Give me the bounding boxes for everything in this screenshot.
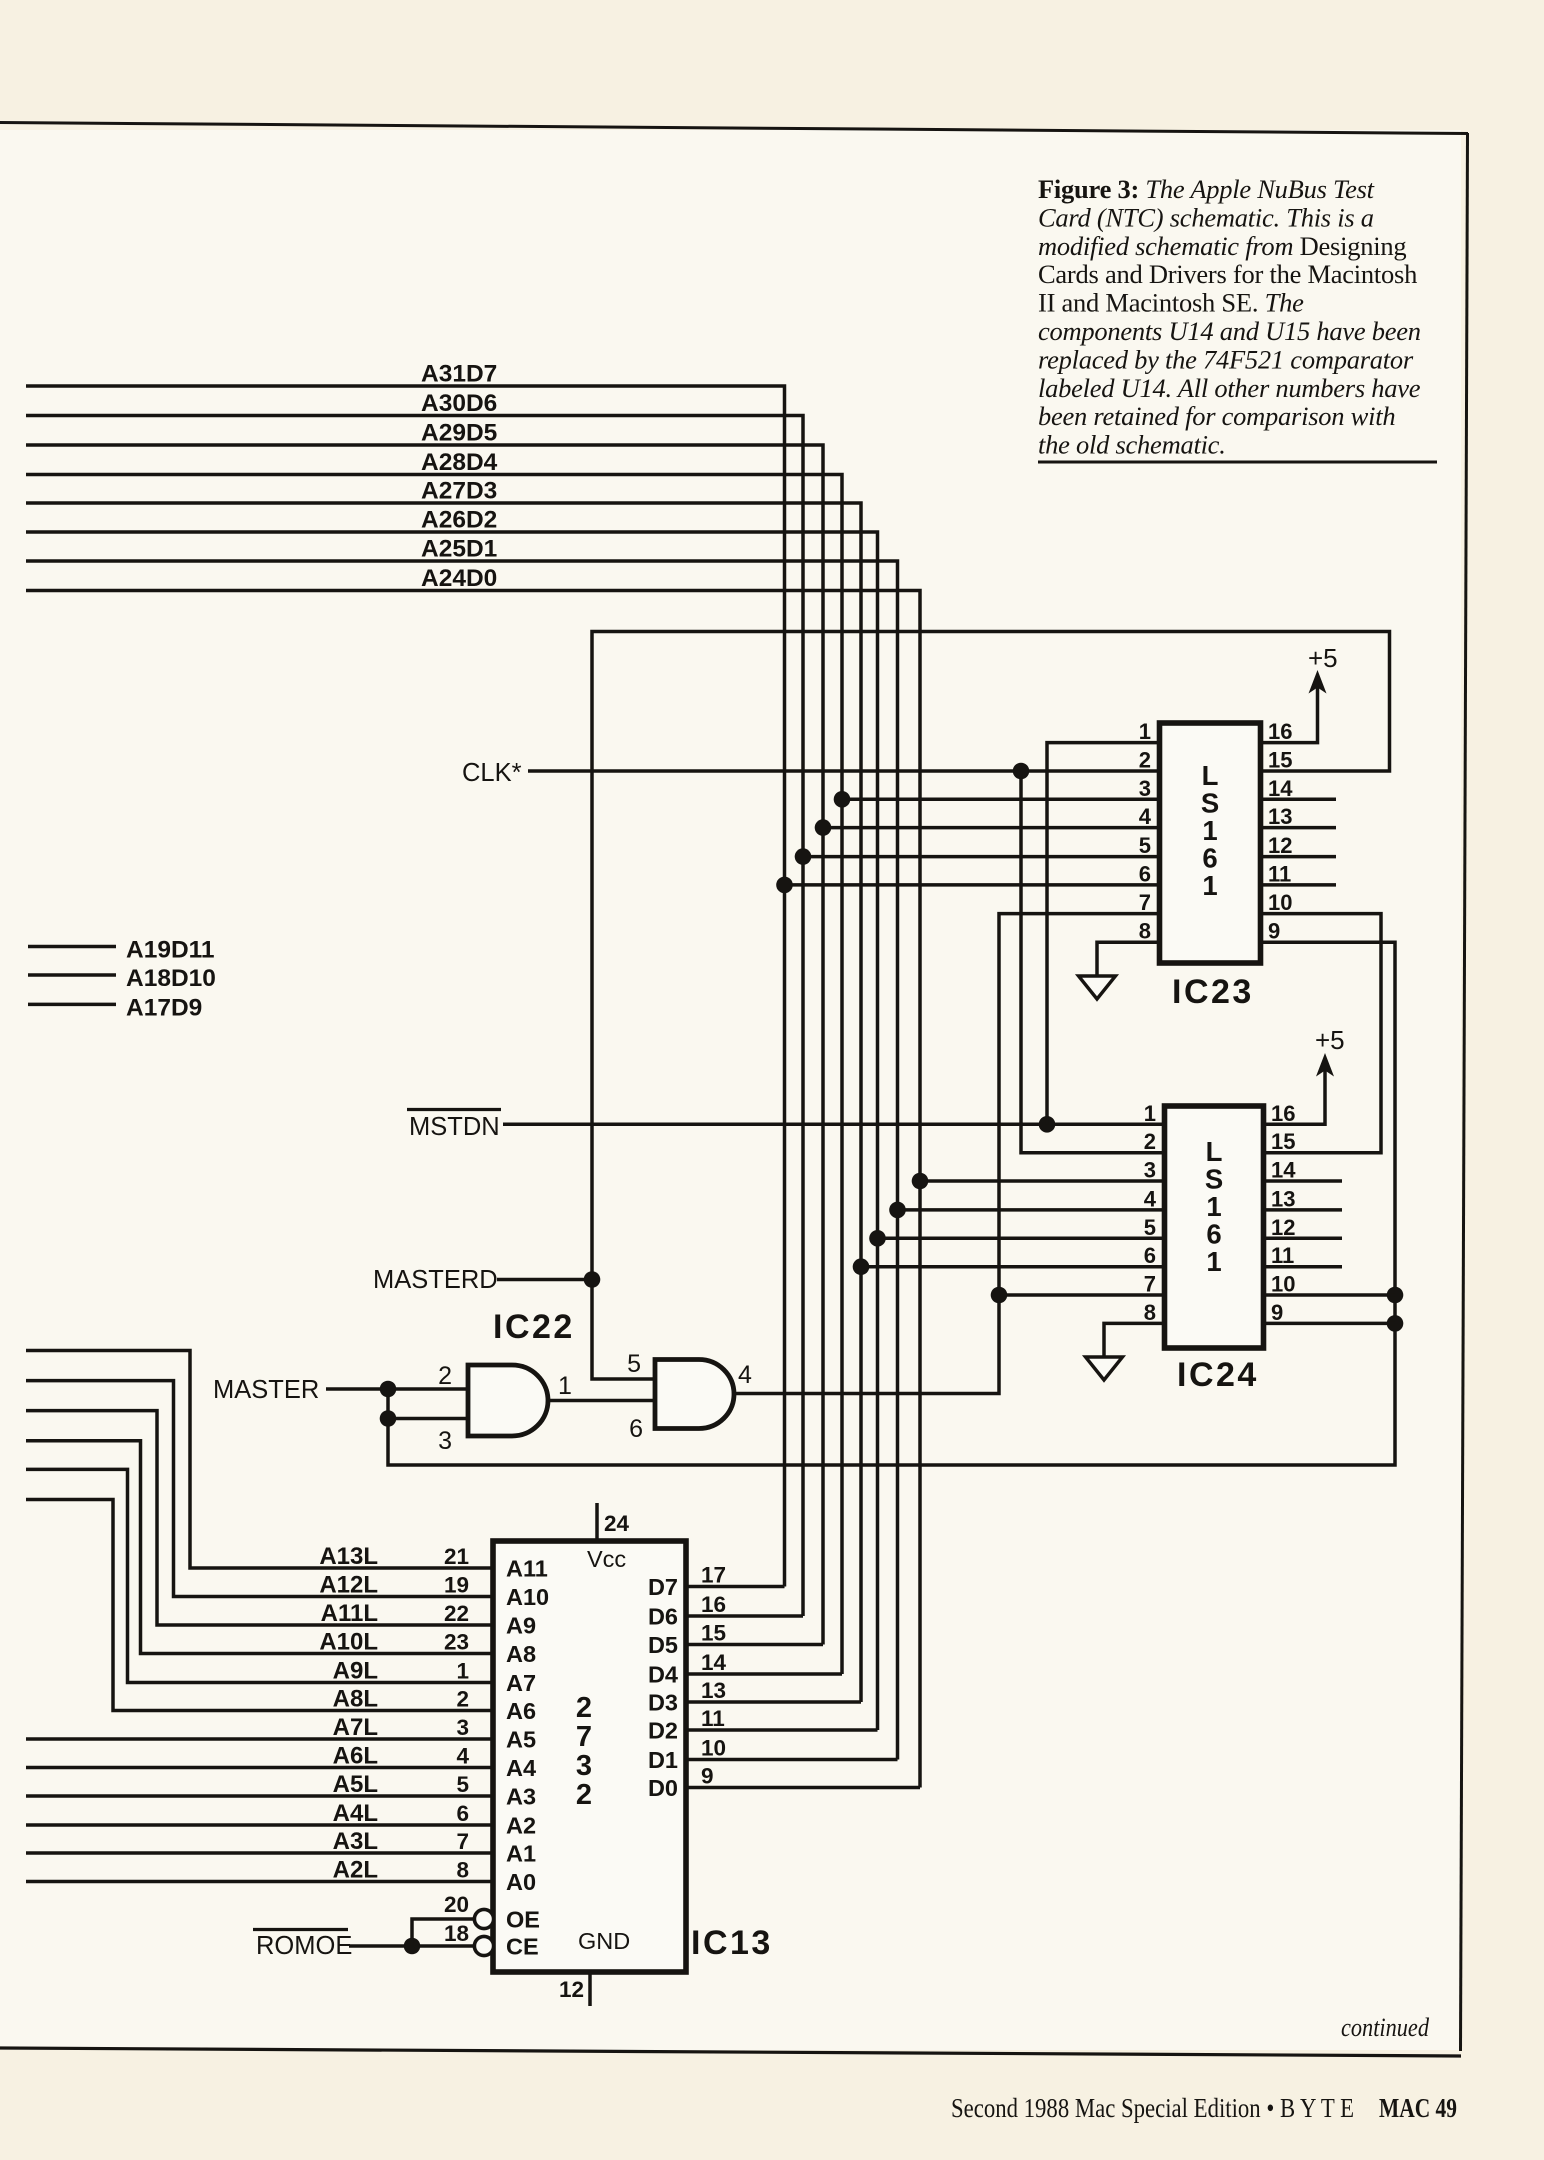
wire ROMOE branch to OE bubble — [412, 1919, 474, 1946]
svg-text:+5: +5 — [1308, 643, 1338, 673]
caption rule — [1038, 461, 1437, 464]
svg-text:6: 6 — [456, 1801, 469, 1826]
svg-text:A9: A9 — [506, 1613, 536, 1639]
svg-text:Figure 3: The Apple NuBus Test: Figure 3: The Apple NuBus Test — [1038, 174, 1375, 204]
svg-text:A3L: A3L — [333, 1828, 378, 1855]
wire bus line A24D0 (horizontal from page edge, bend down to IC13 D0) — [26, 591, 920, 1788]
wire bus line A28D4 (horizontal from page edge, bend down to IC13 D4) — [26, 475, 842, 1675]
wire IC24 output stub — [1264, 1179, 1343, 1183]
svg-text:21: 21 — [444, 1544, 469, 1569]
wire IC24 pin8 to ground — [1104, 1323, 1165, 1357]
svg-text:6: 6 — [1144, 1243, 1156, 1268]
wire IC23 pin10 to IC24 pin15 — [1260, 914, 1381, 1153]
svg-text:2: 2 — [576, 1779, 592, 1811]
figure frame top border — [0, 123, 1468, 134]
wire gate2 output to IC23 pin7 — [733, 914, 1160, 1394]
wire bus line A30D6 (horizontal from page edge, bend down to IC13 D6) — [26, 416, 803, 1617]
svg-text:23: 23 — [444, 1630, 469, 1655]
svg-text:GND: GND — [578, 1928, 630, 1954]
wire IC13 D5 output — [686, 1643, 823, 1647]
ground symbol (IC23) — [1079, 976, 1116, 999]
junction IC24 pin5 tap — [869, 1230, 886, 1247]
wire IC24 pin9 stub — [1264, 1322, 1396, 1326]
svg-text:A3: A3 — [506, 1784, 536, 1810]
svg-text:components U14 and U15 have be: components U14 and U15 have been — [1038, 316, 1421, 346]
svg-text:IC23: IC23 — [1172, 973, 1254, 1011]
svg-text:D7: D7 — [648, 1574, 678, 1600]
wire A5L from page edge — [26, 1794, 493, 1798]
wire IC24 pin6 to bus vertical — [861, 1265, 1165, 1269]
wire A13L feed from page edge — [26, 1351, 493, 1569]
wire A2L from page edge — [26, 1880, 493, 1884]
svg-text:8: 8 — [1139, 919, 1151, 944]
svg-text:5: 5 — [627, 1350, 641, 1378]
svg-text:A19D11: A19D11 — [126, 937, 215, 964]
svg-text:11: 11 — [1271, 1243, 1294, 1268]
svg-text:11: 11 — [701, 1706, 725, 1731]
svg-text:24: 24 — [604, 1511, 630, 1536]
svg-text:12: 12 — [559, 1977, 584, 2002]
wire A12L feed from page edge — [26, 1381, 493, 1597]
svg-text:A31D7: A31D7 — [421, 361, 497, 388]
svg-text:A12L: A12L — [319, 1572, 378, 1599]
wire IC24 pin7 stub — [999, 1293, 1165, 1297]
svg-text:D2: D2 — [648, 1718, 678, 1744]
svg-text:labeled U14. All other numbers: labeled U14. All other numbers have — [1038, 373, 1421, 403]
svg-text:1: 1 — [1139, 719, 1151, 744]
wire IC23 output stub — [1260, 855, 1336, 859]
svg-text:D3: D3 — [648, 1690, 678, 1716]
wire IC23 output stub — [1260, 798, 1336, 802]
svg-text:continued: continued — [1341, 2013, 1430, 2042]
svg-text:MSTDN: MSTDN — [409, 1113, 500, 1141]
svg-text:replaced by the 74F521 compara: replaced by the 74F521 comparator — [1038, 344, 1414, 374]
wire IC13 D2 output — [686, 1728, 878, 1732]
wire gate1 output to gate2 pin6 — [546, 1399, 656, 1403]
svg-text:1: 1 — [1206, 1246, 1221, 1277]
svg-text:2: 2 — [576, 1692, 592, 1724]
wire IC13 D7 output — [686, 1585, 785, 1589]
svg-text:5: 5 — [456, 1772, 469, 1797]
svg-text:16: 16 — [1268, 719, 1292, 744]
svg-text:20: 20 — [444, 1892, 469, 1917]
wire A9L feed from page edge — [26, 1469, 493, 1682]
wire IC23 pin8 to ground — [1097, 942, 1160, 976]
svg-text:4: 4 — [1139, 804, 1152, 829]
svg-text:MASTER: MASTER — [213, 1376, 319, 1404]
junction IC24 pin9 — [1387, 1315, 1404, 1332]
svg-text:CE: CE — [506, 1934, 539, 1960]
svg-text:6: 6 — [1202, 843, 1217, 874]
svg-text:14: 14 — [701, 1650, 727, 1675]
junction IC24 pin7 — [991, 1287, 1008, 1304]
svg-text:Second 1988 Mac Special Editio: Second 1988 Mac Special Edition • B Y T … — [951, 2093, 1354, 2123]
wire A6L from page edge — [26, 1766, 493, 1770]
svg-text:modified schematic from Design: modified schematic from Designing — [1038, 231, 1406, 261]
svg-text:15: 15 — [1268, 748, 1292, 773]
svg-text:A7L: A7L — [333, 1714, 378, 1741]
wire ROMOE to CE bubble — [349, 1944, 474, 1948]
wire IC24 pin10 stub — [1264, 1293, 1396, 1297]
wire IC24 pin3 to bus vertical — [920, 1179, 1165, 1183]
svg-text:A8L: A8L — [333, 1686, 378, 1713]
junction IC23 pin3 tap — [834, 791, 851, 808]
svg-text:A6L: A6L — [333, 1743, 378, 1770]
svg-text:9: 9 — [1271, 1300, 1283, 1325]
svg-text:A2: A2 — [506, 1813, 536, 1839]
svg-text:1: 1 — [1202, 815, 1217, 846]
svg-text:13: 13 — [1268, 804, 1292, 829]
svg-text:19: 19 — [444, 1573, 469, 1598]
svg-text:A29D5: A29D5 — [421, 420, 497, 447]
svg-text:7: 7 — [456, 1829, 469, 1854]
svg-text:6: 6 — [629, 1415, 643, 1443]
junction IC23 pin4 tap — [815, 819, 832, 836]
wire IC13 D1 output — [686, 1758, 898, 1762]
svg-text:A11: A11 — [506, 1556, 548, 1582]
svg-text:11: 11 — [1268, 861, 1291, 886]
svg-text:A25D1: A25D1 — [421, 536, 497, 563]
svg-text:IC13: IC13 — [691, 1924, 773, 1962]
IC U IC24 74LS161 body — [1165, 1106, 1264, 1348]
svg-text:16: 16 — [1271, 1101, 1295, 1126]
svg-text:A8: A8 — [506, 1641, 536, 1667]
wire IC24 pin5 to bus vertical — [878, 1237, 1165, 1241]
svg-text:9: 9 — [701, 1764, 714, 1789]
junction IC24 pin4 tap — [889, 1202, 906, 1219]
svg-text:A10L: A10L — [319, 1629, 378, 1656]
svg-text:3: 3 — [1144, 1158, 1156, 1183]
svg-text:A30D6: A30D6 — [421, 390, 497, 417]
svg-text:3: 3 — [576, 1750, 592, 1782]
wire A10L feed from page edge — [26, 1441, 493, 1654]
wire bus line A27D3 (horizontal from page edge, bend down to IC13 D3) — [26, 503, 861, 1702]
pin IC13-12 GND lead — [588, 1972, 592, 2006]
junction CLK* branch — [1013, 763, 1030, 780]
svg-text:18: 18 — [444, 1921, 469, 1946]
svg-text:15: 15 — [1271, 1129, 1295, 1154]
wire MASTER to gate1 pin2 — [326, 1387, 467, 1391]
junction MASTER pin2 — [380, 1381, 397, 1398]
wire IC24 pin16 to +5 — [1264, 1069, 1326, 1124]
svg-text:9: 9 — [1268, 919, 1280, 944]
svg-text:A7: A7 — [506, 1670, 536, 1696]
wire riser to IC23 pin1 — [1047, 743, 1160, 1125]
svg-text:1: 1 — [1206, 1191, 1221, 1222]
wire A7L from page edge — [26, 1737, 493, 1741]
svg-text:A11L: A11L — [321, 1600, 378, 1627]
svg-text:13: 13 — [701, 1678, 726, 1703]
wire IC24 output stub — [1264, 1208, 1343, 1212]
svg-text:D6: D6 — [648, 1604, 678, 1630]
svg-text:7: 7 — [1144, 1272, 1156, 1297]
svg-text:8: 8 — [456, 1858, 469, 1883]
svg-text:6: 6 — [1206, 1219, 1221, 1250]
pin IC13 OE inversion bubble — [474, 1909, 493, 1928]
svg-text:D1: D1 — [648, 1747, 678, 1773]
IC U IC13 2732 EPROM body — [493, 1541, 686, 1972]
svg-text:L: L — [1206, 1136, 1223, 1167]
wire IC23 pin3 to bus vertical — [842, 798, 1160, 802]
ground symbol (IC24) — [1086, 1357, 1123, 1380]
svg-text:4: 4 — [738, 1361, 752, 1389]
svg-text:IC24: IC24 — [1177, 1356, 1259, 1394]
svg-text:A13L: A13L — [319, 1543, 378, 1570]
svg-text:A10: A10 — [506, 1584, 549, 1610]
wire IC23 pin5 to bus vertical — [803, 855, 1160, 859]
svg-text:2: 2 — [1139, 748, 1151, 773]
svg-text:A6: A6 — [506, 1698, 536, 1724]
svg-text:2: 2 — [1144, 1129, 1156, 1154]
svg-text:10: 10 — [701, 1736, 726, 1761]
svg-text:4: 4 — [1144, 1186, 1157, 1211]
svg-text:22: 22 — [444, 1601, 469, 1626]
svg-text:3: 3 — [1139, 776, 1151, 801]
wire A3L from page edge — [26, 1851, 493, 1855]
junction ROMOE — [404, 1938, 421, 1955]
svg-text:5: 5 — [1144, 1215, 1156, 1240]
svg-text:1: 1 — [558, 1372, 572, 1400]
svg-text:MASTERD: MASTERD — [373, 1266, 498, 1294]
wire stub A17D9 — [28, 1003, 116, 1007]
svg-text:A1: A1 — [506, 1841, 536, 1867]
svg-text:7: 7 — [576, 1721, 592, 1753]
wire IC24 output stub — [1264, 1237, 1343, 1241]
wire MASTERD vertical / top run to IC23 pin15 / down to gate2 pin5 — [592, 632, 1390, 1380]
figure frame bottom border — [0, 2048, 1461, 2056]
svg-text:A2L: A2L — [333, 1857, 378, 1884]
wire IC13 D4 output — [686, 1672, 842, 1676]
svg-text:3: 3 — [438, 1427, 452, 1455]
pin IC13-24 Vcc lead — [595, 1503, 599, 1541]
svg-text:12: 12 — [1271, 1215, 1295, 1240]
pin IC13 CE inversion bubble — [474, 1936, 493, 1955]
svg-text:Card (NTC) schematic. This is: Card (NTC) schematic. This is a — [1038, 202, 1374, 232]
svg-text:A27D3: A27D3 — [421, 478, 497, 505]
wire IC23 output stub — [1260, 826, 1336, 830]
svg-text:A28D4: A28D4 — [421, 449, 498, 476]
wire A8L feed from page edge — [26, 1500, 493, 1711]
svg-text:D5: D5 — [648, 1632, 678, 1658]
svg-text:been retained for comparison w: been retained for comparison with — [1038, 401, 1395, 431]
svg-text:L: L — [1202, 760, 1219, 791]
svg-text:16: 16 — [701, 1592, 726, 1617]
net MSTDN : overline — [407, 1108, 501, 1111]
svg-text:14: 14 — [1268, 776, 1293, 801]
svg-text:15: 15 — [701, 1621, 726, 1646]
svg-text:A26D2: A26D2 — [421, 507, 497, 534]
junction MSTDN / IC23 pin1 riser — [1039, 1116, 1056, 1133]
svg-text:14: 14 — [1271, 1158, 1296, 1183]
svg-text:OE: OE — [506, 1907, 540, 1933]
svg-text:D4: D4 — [648, 1662, 678, 1688]
junction IC23 pin5 tap — [795, 848, 812, 865]
svg-text:10: 10 — [1268, 890, 1292, 915]
wire CLK* branch down to IC24 pin2 — [1021, 771, 1165, 1153]
svg-text:1: 1 — [1144, 1101, 1156, 1126]
wire CLK* to IC23 pin2 — [528, 769, 1160, 773]
wire bus line A31D7 (horizontal from page edge, bend down to IC13 D7) — [26, 386, 785, 1587]
wire IC23 pin6 to bus vertical — [785, 883, 1160, 887]
gate IC22b AND (pins 5,6 -> 4) — [655, 1360, 734, 1429]
svg-text:3: 3 — [456, 1715, 469, 1740]
junction IC24 pin10 — [1387, 1287, 1404, 1304]
svg-text:12: 12 — [1268, 833, 1292, 858]
junction MASTERD on vertical — [584, 1271, 601, 1288]
svg-text:D0: D0 — [648, 1775, 678, 1801]
wire IC13 D6 output — [686, 1614, 803, 1618]
svg-text:7: 7 — [1139, 890, 1151, 915]
svg-text:1: 1 — [1202, 870, 1217, 901]
svg-text:4: 4 — [456, 1744, 469, 1769]
svg-text:Vcc: Vcc — [587, 1546, 626, 1572]
wire A4L from page edge — [26, 1823, 493, 1827]
gate IC22a AND (pins 2,3 -> 1) — [468, 1365, 548, 1436]
power +5 arrow (IC23) — [1309, 670, 1327, 694]
svg-text:A0: A0 — [506, 1869, 536, 1895]
wire stub A19D11 — [28, 945, 116, 949]
svg-text:1: 1 — [456, 1659, 469, 1684]
wire IC23 output stub — [1260, 883, 1336, 887]
wire IC24 pin4 to bus vertical — [898, 1208, 1165, 1212]
svg-text:5: 5 — [1139, 833, 1151, 858]
net ROMOE : overline — [253, 1928, 348, 1931]
wire MASTER branch to gate1 pin3 and bottom run to IC24 pin9 — [388, 942, 1395, 1465]
wire MSTDN to IC24 pin1 — [503, 1123, 1165, 1127]
wire bus line A26D2 (horizontal from page edge, bend down to IC13 D2) — [26, 532, 878, 1730]
junction IC24 pin6 tap — [853, 1258, 870, 1275]
wire IC13 D3 output — [686, 1700, 861, 1704]
svg-text:II and Macintosh SE. The: II and Macintosh SE. The — [1038, 288, 1304, 318]
svg-text:S: S — [1205, 1164, 1223, 1195]
wire IC13 D0 output — [686, 1786, 920, 1790]
svg-text:CLK*: CLK* — [462, 759, 522, 787]
svg-text:10: 10 — [1271, 1272, 1295, 1297]
svg-text:+5: +5 — [1315, 1025, 1345, 1055]
wire IC24 output stub — [1264, 1265, 1343, 1269]
wire gate1 pin3 stub — [388, 1417, 467, 1421]
svg-text:A9L: A9L — [333, 1658, 378, 1685]
IC U IC23 74LS161 body — [1160, 723, 1261, 963]
wire bus line A25D1 (horizontal from page edge, bend down to IC13 D1) — [26, 561, 898, 1760]
figure frame right border — [1461, 133, 1468, 2051]
svg-text:the old schematic.: the old schematic. — [1038, 430, 1226, 460]
wire IC23 pin4 to bus vertical — [823, 826, 1160, 830]
svg-text:6: 6 — [1139, 861, 1151, 886]
svg-text:MAC 49: MAC 49 — [1379, 2093, 1457, 2123]
svg-text:A17D9: A17D9 — [126, 994, 202, 1021]
junction MASTER pin3 — [380, 1410, 397, 1427]
svg-text:2: 2 — [438, 1362, 452, 1390]
svg-text:13: 13 — [1271, 1186, 1295, 1211]
wire bus line A29D5 (horizontal from page edge, bend down to IC13 D5) — [26, 445, 823, 1645]
wire A11L feed from page edge — [26, 1411, 493, 1625]
svg-text:A24D0: A24D0 — [421, 565, 497, 592]
wire MASTERD stub — [497, 1278, 592, 1282]
svg-text:Cards and Drivers for the Maci: Cards and Drivers for the Macintosh — [1038, 259, 1417, 289]
wire IC23 pin16 to +5 — [1260, 686, 1318, 743]
svg-text:ROMOE: ROMOE — [256, 1932, 352, 1960]
svg-text:S: S — [1201, 788, 1219, 819]
svg-text:A5L: A5L — [333, 1771, 378, 1798]
svg-text:17: 17 — [701, 1563, 726, 1588]
power +5 arrow (IC24) — [1316, 1053, 1334, 1077]
svg-text:2: 2 — [456, 1687, 469, 1712]
junction IC24 pin3 tap — [912, 1173, 929, 1190]
svg-text:A18D10: A18D10 — [126, 965, 216, 992]
svg-text:IC22: IC22 — [493, 1308, 575, 1346]
wire stub A18D10 — [28, 973, 116, 977]
svg-text:8: 8 — [1144, 1300, 1156, 1325]
svg-text:A5: A5 — [506, 1727, 536, 1753]
svg-text:A4L: A4L — [333, 1800, 378, 1827]
svg-text:A4: A4 — [506, 1755, 536, 1781]
junction IC23 pin6 tap — [776, 877, 793, 894]
